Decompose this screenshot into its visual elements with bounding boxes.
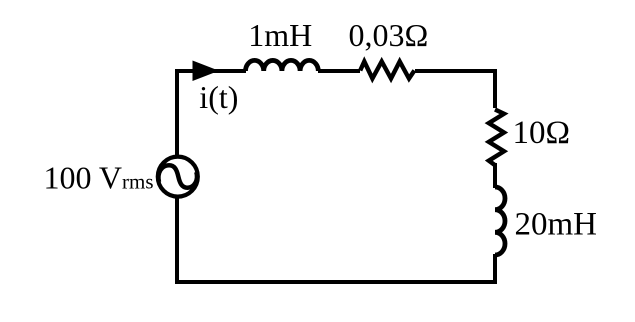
svg-text:20mH: 20mH: [515, 207, 598, 243]
svg-text:10Ω: 10Ω: [513, 115, 571, 151]
svg-text:i(t): i(t): [199, 79, 238, 115]
wire right vertical bottom segment: [493, 254, 497, 284]
wire top horizontal left segment: [175, 69, 246, 73]
wire left vertical top segment: [175, 69, 179, 157]
resistor R1 0,03 ohm: [360, 62, 414, 79]
wire right vertical top segment: [493, 69, 497, 108]
wire bottom horizontal: [175, 280, 497, 284]
ac source V1 circle: [158, 157, 198, 197]
resistor R2 10 ohm: [489, 110, 504, 166]
inductor L2 20mH: [495, 187, 505, 255]
ac source sine wave: [158, 165, 197, 187]
inductor L1 1mH: [246, 60, 319, 71]
wire left vertical bottom segment: [175, 197, 179, 284]
wire top horizontal right segment: [415, 69, 497, 73]
wire top horizontal middle segment: [318, 69, 360, 73]
svg-text:0,03Ω: 0,03Ω: [349, 17, 429, 53]
wire right vertical middle segment: [493, 163, 497, 188]
current arrow i(t): [193, 61, 220, 82]
svg-text:1mH: 1mH: [248, 17, 312, 53]
svg-text:100 Vrms: 100 Vrms: [44, 160, 154, 196]
